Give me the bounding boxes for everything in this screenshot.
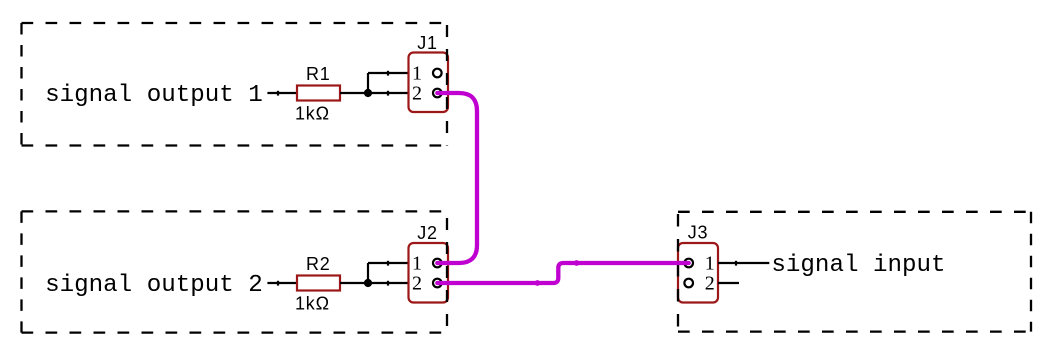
wire R2 to J2 pin2	[340, 282, 409, 284]
wire knot	[387, 281, 389, 286]
J3 pin 2 circle	[684, 279, 693, 288]
dashed box: signal input block	[678, 212, 1031, 332]
dashed box: signal output 1 block	[22, 23, 448, 146]
wire knot	[735, 261, 737, 266]
wire knot	[277, 91, 279, 96]
cable J1.2 to J2.1	[437, 93, 477, 263]
dashed box: signal output 2 block	[22, 211, 448, 332]
wire to J1 pin1	[368, 72, 409, 74]
J1 pin 2 circle	[433, 89, 442, 98]
cable knot	[574, 260, 580, 266]
svg-text:J3: J3	[688, 223, 709, 243]
wire knot	[387, 71, 389, 76]
svg-text:J2: J2	[417, 223, 438, 243]
wire junction up	[367, 263, 369, 283]
svg-text:R2: R2	[306, 254, 331, 274]
wire R1 to J1 pin2	[340, 92, 409, 94]
cable knot	[535, 280, 541, 286]
junction dot	[364, 89, 372, 97]
wire text to R2	[267, 282, 297, 284]
wire knot	[387, 91, 389, 96]
J1 pin 1 circle	[433, 69, 442, 78]
svg-text:2: 2	[412, 82, 422, 104]
wire J3 pin1 to text	[718, 262, 769, 264]
wire stub J3 pin2	[718, 282, 739, 284]
svg-text:signal input: signal input	[771, 252, 945, 279]
svg-text:1: 1	[705, 252, 715, 274]
wire text to R1	[267, 92, 297, 94]
svg-text:J1: J1	[417, 33, 438, 53]
svg-text:2: 2	[705, 272, 715, 294]
wire to J2 pin1	[368, 262, 409, 264]
svg-text:R1: R1	[306, 64, 331, 84]
J3 pin 1 circle	[684, 259, 693, 268]
resistor R2	[297, 276, 340, 291]
wire junction up	[367, 73, 369, 93]
svg-text:1kΩ: 1kΩ	[295, 103, 330, 123]
svg-text:2: 2	[412, 272, 422, 294]
J2 pin 1 circle	[433, 259, 442, 268]
svg-text:1kΩ: 1kΩ	[295, 293, 330, 313]
wire knot	[277, 281, 279, 286]
cable J2.2 to J3.1	[437, 263, 688, 283]
svg-text:signal output 1: signal output 1	[45, 82, 263, 109]
wire knot	[387, 261, 389, 266]
connector J2	[409, 243, 449, 303]
connector J3	[678, 243, 718, 303]
J2 pin 2 circle	[433, 279, 442, 288]
junction dot	[364, 279, 372, 287]
svg-text:signal output 2: signal output 2	[45, 272, 263, 299]
svg-text:1: 1	[412, 62, 422, 84]
resistor R1	[297, 86, 340, 101]
connector J1	[409, 53, 449, 113]
svg-text:1: 1	[412, 252, 422, 274]
